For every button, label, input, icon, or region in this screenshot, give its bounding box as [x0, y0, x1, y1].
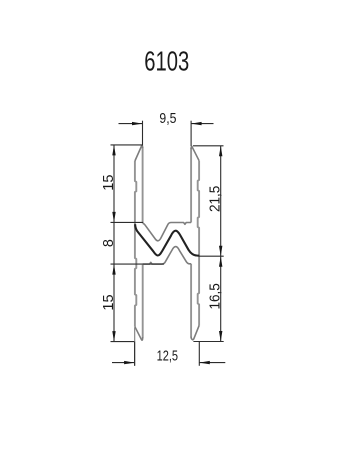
svg-text:9,5: 9,5 — [159, 111, 176, 127]
svg-text:15: 15 — [101, 294, 117, 310]
svg-text:6103: 6103 — [144, 46, 189, 77]
svg-text:21,5: 21,5 — [207, 186, 223, 212]
svg-text:15: 15 — [101, 175, 117, 191]
svg-text:12,5: 12,5 — [157, 349, 178, 365]
svg-text:8: 8 — [101, 239, 117, 247]
svg-text:16,5: 16,5 — [207, 283, 223, 309]
